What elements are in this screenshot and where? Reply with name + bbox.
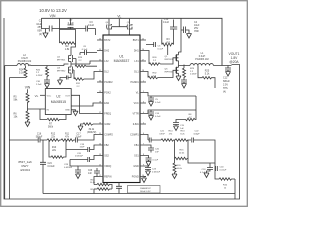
svg-text:BST1: BST1 <box>133 39 140 42</box>
svg-text:X5R: X5R <box>194 30 199 33</box>
op-amp U1 MAX8537 controller <box>103 35 140 183</box>
svg-text:10: 10 <box>142 175 144 177</box>
wire C10 cell to Q1 drain <box>167 46 169 56</box>
wire VIN top rail <box>41 18 222 65</box>
capacitor C11 SS1 <box>146 156 159 162</box>
capacitor C28 <box>64 164 97 174</box>
svg-text:12: 12 <box>99 164 101 166</box>
svg-text:4: 4 <box>143 112 144 114</box>
resistor R31 gate <box>74 70 97 88</box>
svg-text:REFIN: REFIN <box>104 175 111 178</box>
node VL left label <box>35 94 46 98</box>
svg-text:15: 15 <box>99 133 101 135</box>
resistor R18 parallel <box>49 140 66 158</box>
svg-text:PG0083.102: PG0083.102 <box>195 58 209 61</box>
svg-text:VL: VL <box>117 14 121 18</box>
resistor R32 gate right <box>146 70 177 78</box>
capacitor C15 <box>173 123 185 131</box>
svg-text:GND: GND <box>133 165 139 168</box>
svg-text:0.1uF: 0.1uF <box>88 24 95 27</box>
ground below C11 <box>146 162 151 167</box>
svg-text:(2): (2) <box>39 33 42 36</box>
node VIN supply label <box>39 8 67 18</box>
resistor R25 <box>198 66 215 89</box>
ground below C30 <box>45 84 50 89</box>
svg-text:21: 21 <box>99 70 101 72</box>
transistor Q5 <box>127 19 132 35</box>
svg-text:VIN: VIN <box>50 14 56 18</box>
wire R2 to Q2 drain <box>71 43 76 54</box>
svg-text:IRF7821: IRF7821 <box>165 59 174 61</box>
capacitor C21 <box>146 131 165 143</box>
svg-text:LX2: LX2 <box>104 60 109 63</box>
ground PGND pin <box>142 177 147 183</box>
svg-text:POK2: POK2 <box>104 91 111 94</box>
wire left return B <box>8 78 10 199</box>
svg-text:EN2: EN2 <box>104 102 109 105</box>
ground below C15 <box>174 126 179 131</box>
svg-text:10.0k: 10.0k <box>90 182 96 184</box>
svg-text:MAX8515: MAX8515 <box>51 100 66 104</box>
svg-text:22: 22 <box>99 59 101 61</box>
ground Q3 source <box>58 80 63 85</box>
capacitor C6 <box>146 42 164 51</box>
svg-text:28: 28 <box>142 70 144 72</box>
ground below R6 <box>25 122 30 127</box>
svg-text:LX1: LX1 <box>134 60 139 63</box>
svg-text:2.2nF: 2.2nF <box>36 84 42 86</box>
U1 pin stubs and labels <box>97 40 146 177</box>
svg-text:FB1: FB1 <box>134 144 139 147</box>
ground below C23 <box>146 171 151 176</box>
svg-text:C17: C17 <box>76 133 81 135</box>
svg-text:5.1k: 5.1k <box>205 73 210 76</box>
capacitor C10 bootstrap right <box>162 18 177 45</box>
svg-text:FREQ: FREQ <box>104 112 111 115</box>
svg-text:MAX8537: MAX8537 <box>114 59 130 63</box>
op-amp U2 MAX8515 <box>45 89 71 115</box>
capacitor C18 <box>200 163 213 174</box>
wire VOUT1 right-side loop <box>4 18 240 199</box>
svg-text:COMP2: COMP2 <box>104 133 113 136</box>
svg-text:PGND: PGND <box>132 175 139 178</box>
capacitor C40 <box>215 163 227 172</box>
wire VIN label stub <box>52 17 54 20</box>
capacitor C5 VL bypass <box>146 93 196 105</box>
capacitor C20 FB1 <box>146 145 160 154</box>
resistor R2 <box>60 42 76 51</box>
capacitor C7 bootstrap left <box>60 18 76 43</box>
svg-text:BST2: BST2 <box>104 39 111 42</box>
ground U2 GND <box>71 110 78 116</box>
svg-text:0.1uF: 0.1uF <box>158 49 164 51</box>
svg-text:IRF7832: IRF7832 <box>165 71 174 73</box>
resistor R26 snubber left <box>36 66 49 81</box>
node VL top label <box>112 14 128 26</box>
svg-text:25: 25 <box>142 38 144 40</box>
inductor L2 <box>5 54 64 66</box>
resistor R15 REFIN <box>90 177 112 190</box>
svg-text:U1: U1 <box>119 55 124 59</box>
svg-text:IRF7821: IRF7821 <box>57 59 66 61</box>
capacitor C16 <box>36 133 47 142</box>
svg-text:0.033uF: 0.033uF <box>152 172 161 174</box>
svg-text:DL1: DL1 <box>134 70 139 73</box>
capacitor C4 <box>181 21 200 34</box>
svg-text:VTTR: VTTR <box>132 112 139 115</box>
svg-text:3: 3 <box>143 101 144 103</box>
svg-text:VIN: VIN <box>25 86 31 90</box>
svg-text:39.2k: 39.2k <box>89 129 95 131</box>
capacitor C26 <box>88 168 100 177</box>
svg-text:DH2: DH2 <box>104 49 109 52</box>
svg-text:0.1uF: 0.1uF <box>155 116 161 118</box>
svg-text:C16: C16 <box>37 133 42 135</box>
svg-text:DL2: DL2 <box>104 70 109 73</box>
capacitor C14 VTTR bypass <box>146 96 196 118</box>
svg-text:1.8k: 1.8k <box>65 48 70 51</box>
svg-text:0.25W: 0.25W <box>190 74 197 76</box>
svg-text:27: 27 <box>142 59 144 61</box>
title block text <box>18 160 32 172</box>
resistor R7 <box>40 109 66 128</box>
capacitor C25 <box>116 183 122 194</box>
svg-text:ILIM1: ILIM1 <box>133 123 140 126</box>
svg-text:1: 1 <box>143 80 144 82</box>
svg-text:560k: 560k <box>48 126 54 128</box>
svg-text:1-MAX8537: 1-MAX8537 <box>140 187 152 190</box>
wire left return A <box>5 66 36 200</box>
resistor R28 gate <box>75 57 97 67</box>
svg-text:VL: VL <box>35 94 39 98</box>
resistor R5 <box>14 93 30 109</box>
resistor R14 <box>161 131 175 142</box>
svg-text:SS1: SS1 <box>134 154 139 157</box>
svg-text:C26: C26 <box>88 170 93 172</box>
transistor Q3 IRF7832 <box>57 64 74 76</box>
page border frame <box>1 1 248 207</box>
svg-text:PG0083.102: PG0083.102 <box>18 60 32 63</box>
capacitor C31 snubber right <box>181 80 187 84</box>
svg-text:5.1k: 5.1k <box>19 71 24 74</box>
svg-text:0.033uF: 0.033uF <box>64 167 73 169</box>
capacitor C30 snubber left <box>36 80 50 86</box>
ground below R20 <box>172 174 177 179</box>
svg-text:SS2: SS2 <box>104 154 109 157</box>
svg-text:FB2: FB2 <box>104 144 109 147</box>
svg-text:0.1uF: 0.1uF <box>155 102 161 104</box>
transistor Q4 <box>106 19 112 35</box>
svg-text:OUT: OUT <box>65 95 70 97</box>
wire LX2 node <box>64 61 97 66</box>
svg-text:VCC: VCC <box>47 95 52 97</box>
svg-text:R11: R11 <box>65 133 70 135</box>
ground below C18 <box>204 173 209 178</box>
capacitor C8 <box>80 46 97 55</box>
svg-text:5: 5 <box>143 122 144 124</box>
node VOUT1 label <box>229 52 240 64</box>
resistor R12 <box>47 133 61 141</box>
note box <box>128 186 161 194</box>
svg-text:100pF: 100pF <box>193 133 200 135</box>
wire bottom feedback line <box>43 179 235 199</box>
svg-text:0.25W: 0.25W <box>36 75 43 77</box>
inductor L1 <box>190 52 232 66</box>
transistor Q2 IRF7821 <box>57 54 75 64</box>
ground below C12 <box>226 72 231 77</box>
svg-text:U2: U2 <box>56 95 60 99</box>
svg-text:C24: C24 <box>48 163 53 165</box>
resistor R3 <box>162 38 174 46</box>
svg-text:4/23/04: 4/23/04 <box>20 168 30 172</box>
capacitor C24 <box>40 140 55 194</box>
U1 pin names <box>104 39 139 179</box>
svg-text:COMP1: COMP1 <box>130 133 139 136</box>
svg-text:@20A: @20A <box>229 60 239 64</box>
resistor R29 snubber right <box>183 68 198 80</box>
svg-text:20: 20 <box>99 80 101 82</box>
svg-text:1nF: 1nF <box>88 173 93 175</box>
node VIN mid label <box>25 86 31 94</box>
U1 pin numbers <box>99 38 144 177</box>
svg-text:6: 6 <box>143 133 144 135</box>
svg-text:2: 2 <box>143 91 144 93</box>
svg-text:18: 18 <box>99 101 101 103</box>
svg-text:PGND2: PGND2 <box>104 81 113 84</box>
svg-text:23: 23 <box>99 49 101 51</box>
svg-text:24: 24 <box>99 38 101 40</box>
resistor R6 <box>14 109 30 122</box>
svg-text:0.01uF: 0.01uF <box>220 170 227 172</box>
wire U2 OUT to U1 <box>71 95 97 113</box>
svg-text:100uF 6.3V: 100uF 6.3V <box>140 191 151 193</box>
transistor Q1 IRF7821 <box>165 18 182 66</box>
svg-text:VDDQ: VDDQ <box>104 165 111 168</box>
ground below C28 <box>76 174 81 179</box>
capacitor C20 0.033uF <box>70 153 97 166</box>
ground below C4 <box>187 34 192 39</box>
resistor R16 <box>215 169 235 190</box>
capacitor C3 <box>60 21 96 35</box>
svg-text:ILIM2: ILIM2 <box>104 123 111 126</box>
capacitor CS left <box>60 76 71 81</box>
capacitor C2 input <box>36 18 59 36</box>
ground below C14 <box>149 116 154 121</box>
resistor R17 REFIN <box>90 188 112 194</box>
svg-text:19: 19 <box>99 91 101 93</box>
svg-text:3.9nF: 3.9nF <box>159 133 165 135</box>
ground below C31 <box>182 84 187 89</box>
wire LX1 node <box>179 65 191 69</box>
svg-text:10.0k: 10.0k <box>177 168 183 170</box>
svg-text:14: 14 <box>99 143 101 145</box>
svg-text:17: 17 <box>99 112 101 114</box>
capacitor C23 <box>145 166 161 174</box>
svg-text:R10: R10 <box>52 147 57 149</box>
ground below C5 <box>149 102 154 107</box>
resistor R9 FREQ <box>81 123 98 134</box>
svg-text:26: 26 <box>142 49 144 51</box>
transistor Q6 IRF7832 <box>165 67 179 77</box>
svg-text:560pF: 560pF <box>36 136 43 138</box>
svg-text:GND: GND <box>65 109 70 111</box>
svg-text:3.9nF: 3.9nF <box>76 136 82 138</box>
svg-text:15nF: 15nF <box>80 147 86 149</box>
capacitor C22 <box>188 131 215 163</box>
svg-text:(4): (4) <box>223 91 226 94</box>
resistor R11 <box>61 133 76 141</box>
svg-text:R12: R12 <box>51 133 56 135</box>
svg-text:11: 11 <box>99 175 101 177</box>
ground below R9 <box>78 126 83 131</box>
svg-text:7: 7 <box>143 143 144 145</box>
capacitor C12 output <box>223 66 231 94</box>
svg-text:0.01uF: 0.01uF <box>48 166 56 168</box>
resistor R15 FB divider <box>175 140 189 160</box>
svg-text:DH1: DH1 <box>134 49 139 52</box>
svg-text:8: 8 <box>143 154 144 156</box>
svg-text:(300kHz): (300kHz) <box>87 132 97 134</box>
capacitor C18b 15nF <box>66 144 97 152</box>
resistor R24 <box>9 66 27 78</box>
resistor R20 FB divider lower <box>173 159 183 175</box>
wire R5 junction to U2 IN <box>28 108 46 110</box>
svg-text:0.1uF: 0.1uF <box>153 160 159 162</box>
svg-text:0.033uF: 0.033uF <box>75 156 84 158</box>
ground below C2 <box>43 29 48 38</box>
svg-text:VCC: VCC <box>134 102 139 105</box>
svg-text:0.1uF: 0.1uF <box>163 21 170 24</box>
resistor R30 gate right <box>146 51 177 66</box>
svg-text:10.0k: 10.0k <box>179 152 185 154</box>
capacitor C17 <box>76 133 98 142</box>
resistor R8 <box>176 110 196 123</box>
svg-text:PGND1: PGND1 <box>130 81 139 84</box>
svg-text:10.8V to 13.2V: 10.8V to 13.2V <box>39 8 67 13</box>
ground Q6 source <box>176 76 181 81</box>
svg-text:IRF7832: IRF7832 <box>57 70 66 72</box>
svg-text:13: 13 <box>99 154 101 156</box>
svg-text:9: 9 <box>143 164 144 166</box>
svg-text:16: 16 <box>99 122 101 124</box>
resistor R13 <box>175 131 191 142</box>
svg-text:1nF: 1nF <box>155 152 159 154</box>
